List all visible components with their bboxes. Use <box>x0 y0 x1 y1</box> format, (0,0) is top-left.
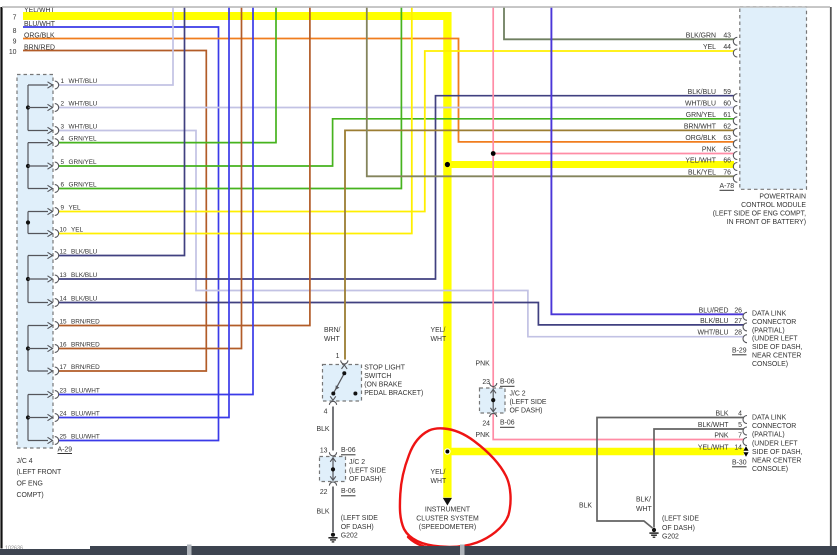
J/C4 pin 12 terminal <box>28 252 59 260</box>
svg-text:BLU/RED: BLU/RED <box>699 307 729 314</box>
svg-text:OF DASH): OF DASH) <box>349 476 382 483</box>
J/C4 internal bus rail y326-371 <box>26 326 30 372</box>
svg-text:POWERTRAIN: POWERTRAIN <box>759 193 806 200</box>
svg-text:SIDE OF DASH,: SIDE OF DASH, <box>752 449 803 456</box>
label BRN/WHT at switch feed <box>324 327 341 343</box>
PCM pin 61 terminal arc <box>733 117 737 125</box>
svg-text:GRN/YEL: GRN/YEL <box>69 135 98 142</box>
PCM pin 43 terminal arc <box>733 37 737 45</box>
svg-text:17: 17 <box>60 364 68 371</box>
svg-text:(UNDER LEFT: (UNDER LEFT <box>752 440 798 447</box>
svg-text:B-30: B-30 <box>732 459 747 466</box>
junction dot YEL/WHT at PCM branch <box>445 162 450 167</box>
svg-text:63: 63 <box>723 135 731 142</box>
svg-text:(LEFT SIDE: (LEFT SIDE <box>662 516 699 523</box>
J/C4 pin 24 terminal <box>28 414 59 422</box>
svg-text:23: 23 <box>482 379 490 386</box>
svg-text:22: 22 <box>320 489 328 496</box>
svg-text:3: 3 <box>61 123 65 130</box>
svg-text:BLK/GRN: BLK/GRN <box>686 33 716 40</box>
svg-text:YEL/WHT: YEL/WHT <box>24 7 55 14</box>
circuit number 10 and BRN/RED label <box>9 44 55 56</box>
svg-text:INSTRUMENT: INSTRUMENT <box>425 507 471 514</box>
svg-text:13: 13 <box>320 448 328 455</box>
J/C4 pin 10 terminal <box>28 230 59 238</box>
svg-text:YEL: YEL <box>71 226 84 233</box>
svg-text:BRN/RED: BRN/RED <box>24 44 55 51</box>
svg-text:G202: G202 <box>341 533 358 540</box>
svg-text:(LEFT SIDE OF ENG COMPT,: (LEFT SIDE OF ENG COMPT, <box>713 210 806 217</box>
label J/C 4 location text <box>17 458 62 499</box>
label INSTRUMENT CLUSTER SYSTEM text <box>416 507 479 531</box>
svg-text:PNK: PNK <box>702 147 717 154</box>
svg-text:CONNECTOR: CONNECTOR <box>752 319 796 326</box>
svg-text:(PARTIAL): (PARTIAL) <box>752 432 785 439</box>
svg-text:BLK: BLK <box>579 503 592 510</box>
svg-text:24: 24 <box>482 420 490 427</box>
svg-text:SWITCH: SWITCH <box>364 373 391 380</box>
wire J/C4 pin 3 WHT/BLU rerouted to DLC B-29 pin 28 <box>59 131 744 337</box>
wire J/C4 pin 1 WHT/BLU up to top edge <box>59 7 174 86</box>
svg-text:BLK/BLU: BLK/BLU <box>688 89 716 96</box>
DLC B-30 pin 4 terminal arc <box>743 416 747 424</box>
svg-text:SIDE OF DASH,: SIDE OF DASH, <box>752 344 803 351</box>
svg-text:6: 6 <box>61 181 65 188</box>
wire BLK/WHT from DLC B-30 pin 5 to ground G202 <box>654 429 744 528</box>
label A-78 <box>720 183 735 191</box>
PCM pin 60 terminal arc <box>733 106 737 114</box>
label B-06 upper right <box>500 378 515 386</box>
svg-text:YEL/WHT: YEL/WHT <box>685 158 716 165</box>
svg-text:OF ENG: OF ENG <box>17 481 43 488</box>
svg-text:PNK: PNK <box>714 433 729 440</box>
svg-text:BLK: BLK <box>317 426 330 433</box>
label J/C 2 left text <box>349 459 386 483</box>
red annotation tail stroke <box>408 537 442 549</box>
svg-text:CONSOLE): CONSOLE) <box>752 361 788 368</box>
page top edge clip strip <box>0 0 837 6</box>
svg-text:(SPEEDOMETER): (SPEEDOMETER) <box>419 524 476 531</box>
svg-text:BRN/RED: BRN/RED <box>71 341 100 348</box>
DLC B-29 pin 28 terminal arc <box>743 335 747 343</box>
svg-text:COMPT): COMPT) <box>17 492 44 499</box>
svg-text:5: 5 <box>61 159 65 166</box>
svg-text:BLK/YEL: BLK/YEL <box>688 170 716 177</box>
svg-text:(UNDER LEFT: (UNDER LEFT <box>752 336 798 343</box>
J/C2 right pin 24 exit <box>482 413 496 427</box>
wire J/C4 pin 14 BLK/BLU to DLC B-29 pin 27 <box>59 303 744 325</box>
PCM pin 63 terminal arc <box>733 140 737 148</box>
PCM pin 66 terminal arc <box>733 163 737 171</box>
label DATA LINK CONNECTOR B-29 text <box>752 311 803 368</box>
wire J/C4 pin 10 YEL up to top edge <box>59 7 412 234</box>
wire BLU/WHT circuit 8 to J/C4 pin 25 <box>23 27 219 441</box>
svg-text:(LEFT SIDE: (LEFT SIDE <box>349 467 386 474</box>
svg-text:10: 10 <box>60 226 68 233</box>
wire BRN/RED circuit 10 to J/C4 pin 17 <box>23 51 206 372</box>
label YEL/WHT lower near instrument cluster <box>431 469 447 485</box>
wire J/C4 pin 15 BRN/RED up to top edge <box>59 7 310 326</box>
svg-text:(LEFT FRONT: (LEFT FRONT <box>17 469 62 476</box>
connector J/C2 left B-06 box <box>320 457 346 482</box>
svg-text:PEDAL BRACKET): PEDAL BRACKET) <box>364 390 423 397</box>
svg-text:4: 4 <box>324 409 328 416</box>
wire BLK from DLC B-30 pin 4 to ground G202 <box>597 418 744 529</box>
J/C4 pin 13 terminal <box>28 275 59 283</box>
J/C4 pin 25 terminal <box>28 437 59 445</box>
wire J/C4 pin 13 BLK/BLU to PCM pin 59 <box>59 96 735 279</box>
junction dot YEL/WHT at DLC branch <box>445 449 450 454</box>
switch pin 1 entry <box>336 353 348 364</box>
svg-text:(ON BRAKE: (ON BRAKE <box>364 382 402 389</box>
svg-text:27: 27 <box>734 318 742 325</box>
connector PCM box A-78 <box>740 6 807 189</box>
J/C4 internal bus rail y85-130 <box>26 85 30 131</box>
svg-text:WHT/BLU: WHT/BLU <box>697 330 728 337</box>
svg-text:1: 1 <box>61 78 65 85</box>
J/C4 internal bus rail y143-188 <box>26 143 30 189</box>
switch pin 4 exit <box>324 401 337 415</box>
label POWERTRAIN CONTROL MODULE text <box>713 193 807 226</box>
svg-text:44: 44 <box>723 44 731 51</box>
page top border line redraw <box>2 6 830 8</box>
svg-text:(LEFT SIDE: (LEFT SIDE <box>510 399 547 406</box>
J/C2 left pin 13 entry <box>320 448 337 456</box>
wire J/C4 pin 24 BLU/WHT up to top edge <box>59 7 230 418</box>
label BLK/WHT at B-30 pin 5 ground run <box>636 496 652 513</box>
wire J/C4 pin 2 WHT/BLU straight to PCM pin 60 <box>59 107 735 109</box>
svg-text:PNK: PNK <box>476 361 491 368</box>
J/C2 right internal wire <box>490 389 496 412</box>
svg-text:26: 26 <box>734 307 742 314</box>
wire J/C4 pin 16 BRN/RED up to top edge <box>59 7 242 349</box>
svg-text:GRN/YEL: GRN/YEL <box>686 112 716 119</box>
svg-text:WHT/BLU: WHT/BLU <box>685 101 716 108</box>
svg-text:BLK/WHT: BLK/WHT <box>698 422 729 429</box>
wire BLK J/C2 B-06 pin 22 down to ground G202 <box>332 487 334 533</box>
svg-text:65: 65 <box>723 147 731 154</box>
arrow to instrument cluster system <box>443 498 452 506</box>
J/C4 internal bus rail y394-440 <box>26 395 30 441</box>
svg-text:(LEFT SIDE: (LEFT SIDE <box>341 515 378 522</box>
svg-text:PNK: PNK <box>476 432 491 439</box>
J/C4 internal bus rail y256-302 <box>26 256 30 303</box>
svg-text:76: 76 <box>723 170 731 177</box>
svg-text:BLK/: BLK/ <box>636 496 651 503</box>
wire PNK from J/C2 pin 24 to DLC B-30 pin 7 <box>493 413 744 440</box>
label B-06 lower left <box>341 488 356 496</box>
circuit number 9 and ORG/BLK label <box>13 32 55 45</box>
bottom toolbar bar <box>0 546 837 555</box>
svg-text:61: 61 <box>723 112 731 119</box>
svg-text:BLU/WHT: BLU/WHT <box>71 433 100 440</box>
label B-30 <box>732 459 747 467</box>
J/C4 pin 23 terminal <box>28 391 59 399</box>
svg-text:66: 66 <box>723 158 731 165</box>
svg-text:BLU/WHT: BLU/WHT <box>71 410 100 417</box>
svg-text:OF DASH): OF DASH) <box>341 524 374 531</box>
svg-text:NEAR CENTER: NEAR CENTER <box>752 353 801 360</box>
DLC B-29 pin 26 terminal arc <box>743 312 747 320</box>
svg-text:B-06: B-06 <box>500 378 515 385</box>
page right border <box>830 7 832 546</box>
svg-text:BLK: BLK <box>317 509 330 516</box>
svg-text:B-06: B-06 <box>500 420 515 427</box>
wire J/C4 pin 6 GRN/YEL up to top edge <box>59 7 402 189</box>
svg-text:B-29: B-29 <box>732 347 747 354</box>
svg-text:5: 5 <box>738 422 742 429</box>
svg-text:YEL/: YEL/ <box>431 469 446 476</box>
svg-text:4: 4 <box>61 135 65 142</box>
svg-text:14: 14 <box>734 445 742 452</box>
wire BLK stop light switch pin 4 to J/C2 B-06 pin 13 <box>332 407 334 451</box>
svg-text:1: 1 <box>336 353 340 360</box>
svg-text:16: 16 <box>60 341 68 348</box>
wire PNK from top edge down to J/C2 with branch to PCM pin 65 <box>492 7 494 388</box>
svg-text:9: 9 <box>13 39 17 46</box>
svg-text:(PARTIAL): (PARTIAL) <box>752 327 785 334</box>
svg-text:BRN/RED: BRN/RED <box>71 364 100 371</box>
svg-text:BLK/BLU: BLK/BLU <box>71 248 98 255</box>
J/C2 left pin 22 exit <box>320 482 337 496</box>
label J/C 2 right text <box>510 390 547 414</box>
svg-text:7: 7 <box>13 15 17 22</box>
svg-text:J/C 2: J/C 2 <box>510 390 526 397</box>
svg-text:YEL/: YEL/ <box>431 327 446 334</box>
label STOP LIGHT SWITCH text <box>364 364 423 397</box>
label YEL/WHT upper near vertical drop <box>431 327 447 343</box>
wire ORG/BLK circuit 9 to PCM pin 63 <box>23 39 734 142</box>
J/C4 pin 16 terminal <box>28 345 59 353</box>
PCM pin 65 terminal arc <box>733 152 737 160</box>
DLC B-30 pin 7 terminal arc <box>743 438 747 446</box>
J/C2 left internal wire <box>330 458 336 481</box>
svg-text:A-29: A-29 <box>58 447 73 454</box>
J/C4 pin 3 terminal <box>28 127 59 135</box>
svg-text:WHT/BLU: WHT/BLU <box>69 78 98 85</box>
svg-text:CONNECTOR: CONNECTOR <box>752 423 796 430</box>
svg-text:WHT: WHT <box>324 336 340 343</box>
svg-text:BRN/RED: BRN/RED <box>71 318 100 325</box>
svg-text:24: 24 <box>60 410 68 417</box>
svg-text:WHT/BLU: WHT/BLU <box>69 100 98 107</box>
svg-text:BLK/BLU: BLK/BLU <box>71 272 98 279</box>
svg-text:WHT: WHT <box>431 336 447 343</box>
svg-text:WHT/BLU: WHT/BLU <box>69 123 98 130</box>
wire J/C4 pin 5 GRN/YEL to PCM pin 61 <box>59 119 735 166</box>
svg-text:G202: G202 <box>662 534 679 541</box>
bottom bar separator left <box>187 545 192 555</box>
switch contact arm and contacts <box>330 365 357 400</box>
wire YEL/WHT branch to PCM pin 66 <box>447 161 734 168</box>
PCM pin 44 terminal arc <box>733 49 737 57</box>
svg-text:60: 60 <box>723 101 731 108</box>
label B-06 lower right <box>500 420 515 428</box>
switch S1 stop light switch box <box>323 365 362 402</box>
svg-text:9: 9 <box>61 204 65 211</box>
junction dot PNK at PCM 65 branch <box>491 151 496 156</box>
svg-text:59: 59 <box>723 89 731 96</box>
svg-text:YEL: YEL <box>703 44 716 51</box>
svg-text:BLK/BLU: BLK/BLU <box>700 318 728 325</box>
wire J/C4 pin 9 YEL to PCM pin 44 <box>59 51 735 212</box>
svg-text:8: 8 <box>13 28 17 35</box>
ground G202 right symbol <box>649 528 658 537</box>
wire YEL/WHT branch to DLC B-30 pin 14 <box>447 448 743 456</box>
wire J/C4 pin 12 BLK/BLU up to top edge <box>59 7 185 256</box>
svg-text:25: 25 <box>60 433 68 440</box>
svg-text:GRN/YEL: GRN/YEL <box>69 159 98 166</box>
svg-text:ORG/BLK: ORG/BLK <box>685 135 716 142</box>
label B-06 upper left <box>341 447 356 455</box>
svg-text:J/C 4: J/C 4 <box>17 458 33 465</box>
svg-text:CONTROL MODULE: CONTROL MODULE <box>741 202 806 209</box>
svg-text:BLU/WHT: BLU/WHT <box>71 387 100 394</box>
svg-text:IN FRONT OF BATTERY): IN FRONT OF BATTERY) <box>727 219 806 226</box>
svg-text:GRN/YEL: GRN/YEL <box>69 181 98 188</box>
svg-text:OF DASH): OF DASH) <box>510 407 543 414</box>
J/C4 pin 14 terminal <box>28 299 59 307</box>
PCM pin 59 terminal arc <box>733 94 737 102</box>
DLC B-30 pin 14 thick terminal symbol <box>743 446 748 456</box>
wire BLK/GRN from top edge to PCM pin 43 <box>504 7 734 40</box>
svg-text:J/C 2: J/C 2 <box>349 459 365 466</box>
DLC B-29 pin 27 terminal arc <box>743 323 747 331</box>
svg-text:STOP LIGHT: STOP LIGHT <box>364 364 406 371</box>
svg-text:NEAR CENTER: NEAR CENTER <box>752 458 801 465</box>
svg-text:7: 7 <box>738 433 742 440</box>
svg-text:B-06: B-06 <box>341 447 356 454</box>
label DATA LINK CONNECTOR B-30 text <box>752 415 803 474</box>
svg-text:A-78: A-78 <box>720 183 735 190</box>
svg-text:BLK/BLU: BLK/BLU <box>71 295 98 302</box>
J/C4 pin 9 terminal <box>28 208 59 216</box>
circuit number 7 and YEL/WHT label <box>13 7 56 21</box>
svg-text:DATA LINK: DATA LINK <box>752 311 787 318</box>
J/C4 pin 5 terminal <box>28 162 59 170</box>
J/C2 right pin 23 entry <box>482 379 496 387</box>
J/C4 internal bus rail y212-234 <box>26 212 30 234</box>
wire BLU/RED from top edge to DLC B-29 pin 26 <box>551 7 743 315</box>
svg-text:23: 23 <box>60 387 68 394</box>
svg-text:WHT: WHT <box>636 506 652 513</box>
label A-29 <box>58 447 73 454</box>
J/C4 pin 4 terminal <box>28 139 59 147</box>
connector J/C2 right B-06 box <box>480 388 506 413</box>
J/C4 pin 15 terminal <box>28 322 59 330</box>
svg-text:DATA LINK: DATA LINK <box>752 415 787 422</box>
J/C4 pin 17 terminal <box>28 367 59 375</box>
svg-text:BRN/WHT: BRN/WHT <box>684 124 717 131</box>
page left border <box>0 7 2 549</box>
svg-text:2: 2 <box>61 100 65 107</box>
circuit number 8 and BLU/WHT label <box>13 21 56 35</box>
page top border <box>2 6 830 8</box>
svg-text:BRN/: BRN/ <box>324 327 341 334</box>
svg-text:62: 62 <box>723 124 731 131</box>
wire YEL/WHT circuit 7 main run (left edge to vertical drop) <box>23 12 447 20</box>
label G202 right text <box>662 516 699 541</box>
svg-text:10: 10 <box>9 49 17 56</box>
wire YEL/WHT vertical drop to instrument cluster <box>443 12 451 498</box>
svg-text:BLU/WHT: BLU/WHT <box>24 21 56 28</box>
svg-text:BLK: BLK <box>715 411 728 418</box>
wire BLK/YEL from top edge to PCM pin 76 <box>367 7 734 177</box>
svg-text:YEL: YEL <box>69 204 82 211</box>
DLC B-30 pin 5 terminal arc <box>743 427 747 435</box>
svg-text:OF DASH): OF DASH) <box>662 525 695 532</box>
wire PNK branch to PCM pin 65 <box>493 153 734 155</box>
svg-text:WHT: WHT <box>431 478 447 485</box>
svg-text:CLUSTER SYSTEM: CLUSTER SYSTEM <box>416 515 479 522</box>
J/C4 pin 6 terminal <box>28 185 59 193</box>
wire J/C4 pin 4 GRN/YEL up to top edge <box>59 7 277 143</box>
svg-text:14: 14 <box>60 295 68 302</box>
svg-text:ORG/BLK: ORG/BLK <box>24 32 55 39</box>
svg-text:13: 13 <box>60 272 68 279</box>
wire BRN/WHT from PCM pin 62 down to stop light switch pin 1 <box>345 130 734 359</box>
svg-text:B-06: B-06 <box>341 488 356 495</box>
wire J/C4 pin 23 BLU/WHT up to top edge <box>59 7 254 395</box>
svg-text:4: 4 <box>738 411 742 418</box>
svg-text:28: 28 <box>734 330 742 337</box>
svg-text:12: 12 <box>60 248 68 255</box>
PCM pin 76 terminal arc <box>733 174 737 182</box>
bottom bar separator right <box>460 545 465 555</box>
ground G202 left symbol <box>328 533 337 542</box>
red hand-drawn annotation circle around instrument cluster <box>400 428 511 547</box>
label B-29 <box>732 347 747 355</box>
svg-text:YEL/WHT: YEL/WHT <box>698 445 729 452</box>
label G202 left text <box>341 515 378 540</box>
connector J/C4 box A-29 <box>17 75 53 449</box>
svg-text:15: 15 <box>60 318 68 325</box>
svg-text:CONSOLE): CONSOLE) <box>752 466 788 473</box>
J/C4 pin 2 terminal <box>28 104 59 112</box>
PCM pin 62 terminal arc <box>733 128 737 136</box>
J/C4 pin 1 terminal <box>28 81 59 89</box>
svg-text:43: 43 <box>723 33 731 40</box>
